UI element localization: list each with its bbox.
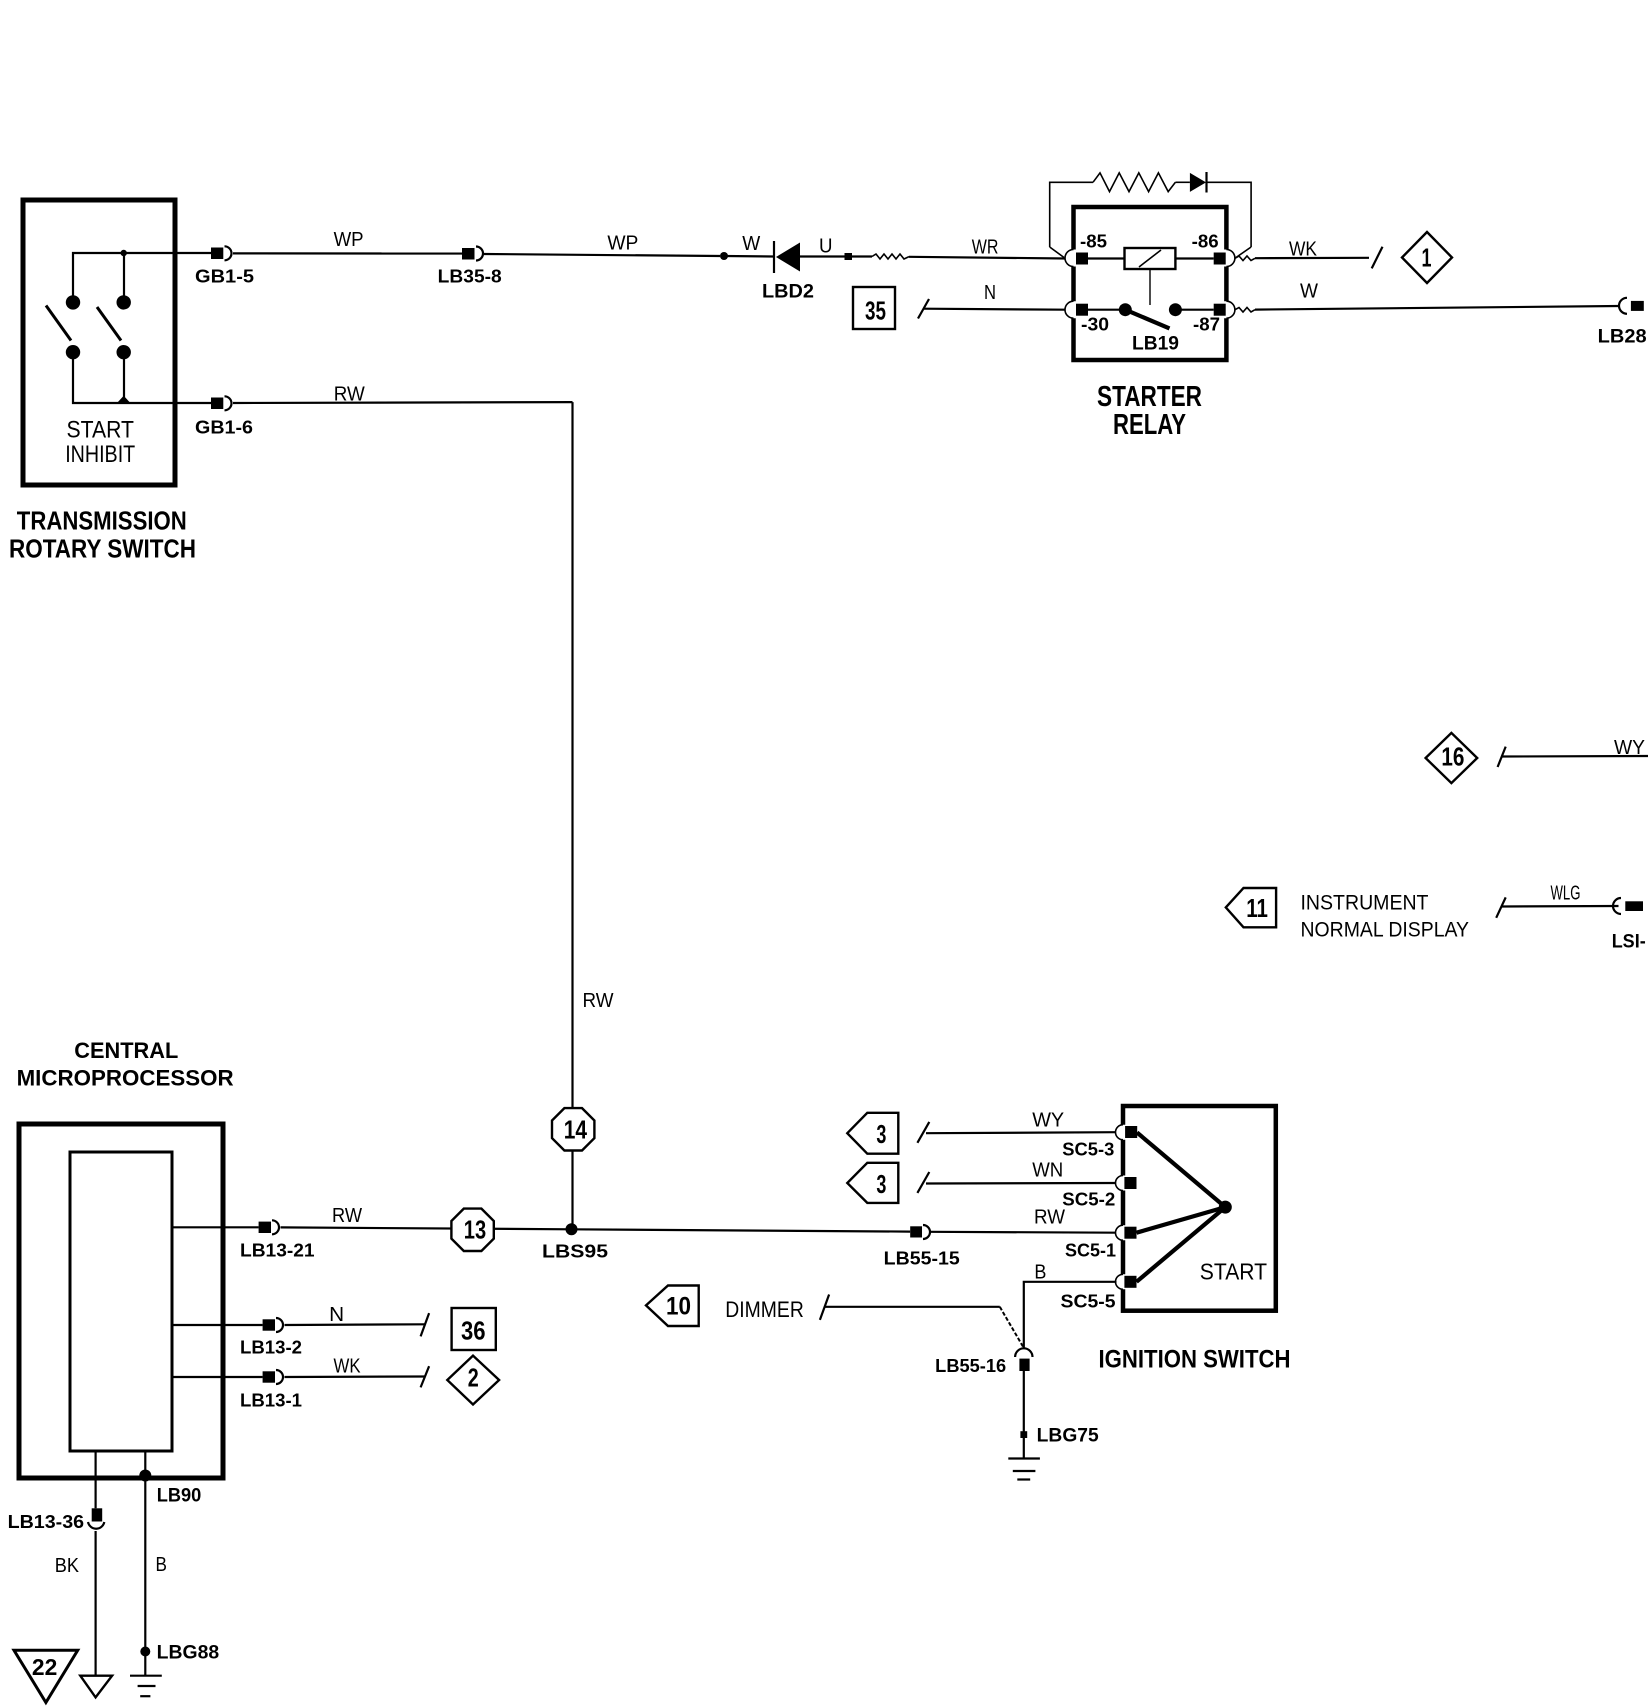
pin labels — [1080, 232, 1220, 335]
svg-text:WN: WN — [1032, 1160, 1063, 1182]
ref diamond 2 — [447, 1356, 499, 1405]
connector LB13-36 — [8, 1508, 105, 1532]
pin square SC5-5 — [1124, 1276, 1136, 1288]
pin square SC5-1 — [1124, 1227, 1136, 1239]
wire DIMMER diagonal — [1000, 1307, 1024, 1348]
svg-text:INHIBIT: INHIBIT — [65, 441, 135, 468]
wire RW from U2 — [172, 1226, 259, 1228]
ref triangle 22 — [14, 1650, 78, 1702]
svg-text:RW: RW — [1034, 1207, 1065, 1229]
wire WK from -86 — [1235, 256, 1255, 261]
off-page slash WY — [1498, 747, 1506, 767]
wire WN to SC5-2 — [926, 1182, 1117, 1185]
central microprocessor inner box — [70, 1152, 172, 1451]
transmission rotary switch U1 box — [23, 200, 175, 485]
pin bump -87 — [1223, 301, 1235, 318]
off-page slash WLG — [1496, 897, 1506, 917]
off-page slash WN — [917, 1172, 929, 1193]
wire RW long vertical — [571, 402, 573, 1229]
ground LBG75 — [1008, 1459, 1040, 1480]
svg-text:B: B — [1034, 1262, 1046, 1284]
pin bump SC5-3 — [1116, 1125, 1126, 1140]
wire W segment — [724, 255, 773, 258]
node junction W — [720, 252, 728, 260]
svg-text:ROTARY SWITCH: ROTARY SWITCH — [9, 534, 196, 564]
svg-text:3: 3 — [876, 1119, 886, 1149]
switch blade left — [46, 306, 71, 341]
switch contact dots — [66, 295, 131, 359]
diode D1 in suppression loop — [1175, 172, 1206, 193]
wire B to ground — [1023, 1371, 1025, 1459]
splice ref octagon 13 — [451, 1209, 493, 1251]
svg-text:LBS95: LBS95 — [542, 1242, 608, 1262]
connector LB55-16 — [935, 1348, 1032, 1376]
wire internal bottom — [73, 352, 211, 403]
svg-text:TRANSMISSION: TRANSMISSION — [17, 505, 187, 535]
svg-text:GB1-5: GB1-5 — [195, 267, 254, 287]
svg-text:U: U — [819, 236, 833, 258]
pin square SC5-2 — [1124, 1177, 1136, 1189]
pin square -85 — [1076, 253, 1088, 265]
svg-text:10: 10 — [666, 1293, 691, 1321]
node LBS95 — [542, 1223, 608, 1261]
svg-text:NORMAL DISPLAY: NORMAL DISPLAY — [1301, 919, 1470, 942]
pin bump SC5-5 — [1116, 1274, 1126, 1289]
svg-text:LSI-: LSI- — [1612, 932, 1646, 953]
svg-text:LB13-21: LB13-21 — [240, 1241, 315, 1261]
svg-text:RW: RW — [583, 990, 614, 1012]
ref box 36 — [452, 1308, 496, 1350]
off-page slash DIMMER — [820, 1295, 829, 1320]
svg-text:BK: BK — [55, 1555, 80, 1577]
svg-text:CENTRAL: CENTRAL — [74, 1038, 178, 1063]
wire WY to SC5-3 — [926, 1132, 1117, 1133]
svg-text:LB19: LB19 — [1132, 334, 1179, 355]
wire internal top — [73, 253, 211, 302]
node junction bottom — [117, 396, 130, 403]
wire WK from U2 with slash — [172, 1376, 263, 1378]
pin bump -85 — [1065, 250, 1077, 267]
wire U segment — [800, 255, 845, 257]
pin bump -30 — [1065, 301, 1077, 318]
svg-text:WR: WR — [972, 237, 999, 259]
wire W from -87 — [1235, 308, 1255, 313]
svg-text:RELAY: RELAY — [1113, 409, 1186, 441]
wire WY right — [1502, 755, 1648, 758]
connector LB28 — [1598, 298, 1647, 348]
splice ref octagon 14 — [552, 1108, 594, 1150]
node LBG75 — [1020, 1426, 1099, 1447]
wire contact row — [1088, 309, 1120, 311]
svg-text:-85: -85 — [1080, 232, 1107, 252]
svg-text:SC5-1: SC5-1 — [1065, 1241, 1116, 1261]
svg-text:WY: WY — [1614, 737, 1645, 759]
wire B from U2 — [144, 1451, 146, 1676]
contact dots — [1119, 303, 1132, 316]
svg-text:N: N — [329, 1304, 344, 1326]
svg-text:LB13-36: LB13-36 — [8, 1512, 85, 1532]
connector LB55-15 — [884, 1225, 960, 1269]
wire N to relay with slash — [918, 299, 929, 319]
pin bump SC5-1 — [1116, 1225, 1126, 1240]
wire WP segment 2 — [484, 254, 720, 256]
svg-text:LB13-2: LB13-2 — [240, 1338, 302, 1358]
svg-text:35: 35 — [865, 296, 886, 326]
svg-text:14: 14 — [564, 1115, 588, 1145]
label START INHIBIT — [65, 417, 135, 469]
svg-text:WK: WK — [1289, 239, 1318, 261]
contact blade — [1125, 310, 1169, 329]
node junction top — [121, 250, 127, 256]
node LB90 — [139, 1470, 201, 1507]
diode LBD2 — [762, 241, 814, 303]
wire DIMMER — [825, 1306, 1000, 1308]
pin labels SC5-x — [1061, 1140, 1117, 1312]
svg-text:LBD2: LBD2 — [762, 282, 814, 303]
ref diamond 16 — [1426, 733, 1478, 783]
svg-text:1: 1 — [1422, 243, 1432, 273]
svg-text:WP: WP — [607, 233, 638, 255]
off-page slash WK — [1372, 247, 1383, 269]
central microprocessor U2 outer box — [19, 1124, 223, 1478]
title STARTER RELAY — [1097, 381, 1202, 441]
wire coil to contact — [1149, 269, 1151, 305]
svg-text:SC5-3: SC5-3 — [1062, 1140, 1114, 1160]
svg-text:INSTRUMENT: INSTRUMENT — [1301, 892, 1429, 915]
svg-text:LB55-15: LB55-15 — [884, 1249, 960, 1269]
connector GB1-5 — [195, 246, 254, 286]
svg-text:START: START — [67, 417, 135, 444]
node junction U (square) — [845, 253, 853, 260]
wire coil row — [1088, 257, 1125, 259]
resistor R1 zigzag — [1093, 173, 1175, 192]
svg-text:LBG75: LBG75 — [1037, 1426, 1099, 1447]
pin square -86 — [1214, 253, 1226, 265]
svg-text:WY: WY — [1032, 1110, 1064, 1132]
pin square -30 — [1076, 304, 1088, 316]
svg-text:SC5-2: SC5-2 — [1062, 1190, 1115, 1210]
svg-text:W: W — [1300, 281, 1318, 303]
pin square SC5-3 — [1125, 1126, 1137, 1138]
ref pentagon 11 — [1226, 888, 1276, 927]
wire WP segment 1 — [233, 252, 462, 254]
switch common node — [1219, 1201, 1232, 1214]
label INSTRUMENT NORMAL DISPLAY — [1301, 892, 1470, 942]
svg-text:B: B — [156, 1554, 167, 1576]
svg-text:LB90: LB90 — [157, 1486, 202, 1507]
connector LB35-8 — [438, 247, 502, 287]
svg-text:N: N — [984, 282, 996, 304]
connector LSI — [1612, 898, 1646, 953]
svg-text:3: 3 — [876, 1169, 886, 1199]
svg-text:GB1-6: GB1-6 — [195, 418, 253, 438]
svg-text:36: 36 — [461, 1316, 486, 1346]
resistor R1 suppression loop left leg — [1050, 182, 1093, 247]
ignition switch S1 box — [1123, 1106, 1276, 1311]
svg-text:LB28: LB28 — [1598, 327, 1647, 348]
ref box 35 — [853, 287, 895, 329]
wire RW to SC5-1 — [931, 1231, 1117, 1234]
svg-text:SC5-5: SC5-5 — [1061, 1292, 1116, 1312]
svg-text:LB35-8: LB35-8 — [438, 267, 502, 287]
ground arrow BK — [80, 1676, 112, 1698]
wire BK from U2 inner — [94, 1451, 96, 1508]
starter relay K1 box — [1074, 207, 1227, 360]
svg-text:IGNITION SWITCH: IGNITION SWITCH — [1099, 1346, 1291, 1374]
svg-text:RW: RW — [332, 1205, 362, 1227]
svg-text:-87: -87 — [1193, 315, 1220, 335]
ref pentagon 3 upper — [847, 1113, 898, 1154]
connector GB1-6 — [195, 396, 253, 437]
svg-text:-30: -30 — [1081, 315, 1109, 335]
title TRANSMISSION ROTARY SWITCH — [9, 505, 196, 563]
svg-text:RW: RW — [334, 384, 365, 406]
svg-text:WK: WK — [334, 1356, 362, 1378]
svg-text:WLG: WLG — [1551, 883, 1581, 905]
svg-text:11: 11 — [1246, 893, 1268, 923]
wire RW to LB55-15 — [572, 1229, 911, 1231]
ref diamond 1 — [1402, 232, 1452, 283]
svg-text:2: 2 — [468, 1363, 479, 1393]
connector LB13-21 — [240, 1220, 315, 1260]
switch blade right — [97, 307, 121, 341]
ground LBG88 — [130, 1676, 162, 1697]
node LBG88 — [140, 1643, 219, 1664]
svg-text:-86: -86 — [1192, 232, 1219, 252]
svg-text:DIMMER: DIMMER — [725, 1297, 804, 1322]
wire B from SC5-5 — [1024, 1282, 1117, 1349]
svg-text:W: W — [742, 233, 760, 255]
svg-text:WP: WP — [334, 229, 364, 251]
wire internal right-bottom vertical — [123, 352, 125, 403]
svg-text:LBG88: LBG88 — [157, 1643, 220, 1664]
pin bump -86 — [1223, 250, 1235, 267]
wire N from U2 with slash — [172, 1324, 263, 1326]
wire internal right-top vertical — [123, 253, 125, 302]
svg-text:MICROPROCESSOR: MICROPROCESSOR — [17, 1066, 234, 1091]
pin bump SC5-2 — [1116, 1176, 1126, 1191]
ref pentagon 3 lower — [847, 1163, 898, 1203]
svg-text:13: 13 — [464, 1215, 486, 1245]
wire RW to octagon 13 — [281, 1227, 572, 1229]
svg-text:START: START — [1200, 1259, 1267, 1285]
title CENTRAL MICROPROCESSOR — [17, 1038, 234, 1091]
wire RW horizontal from GB1-6 — [233, 401, 573, 404]
svg-text:16: 16 — [1441, 742, 1464, 772]
wire WR segment with splice zigzag — [852, 255, 872, 257]
ref pentagon 10 DIMMER — [646, 1286, 699, 1327]
switch wiper lines — [1137, 1133, 1226, 1282]
wire WLG — [1501, 905, 1619, 908]
wire BK lower — [94, 1531, 96, 1676]
svg-text:LB55-16: LB55-16 — [935, 1356, 1006, 1376]
pin square -87 — [1214, 304, 1226, 316]
off-page slash WY — [917, 1122, 929, 1143]
suppression loop right leg — [1207, 182, 1251, 247]
relay coil — [1125, 248, 1176, 269]
svg-text:22: 22 — [32, 1654, 57, 1680]
svg-text:LB13-1: LB13-1 — [240, 1391, 302, 1411]
